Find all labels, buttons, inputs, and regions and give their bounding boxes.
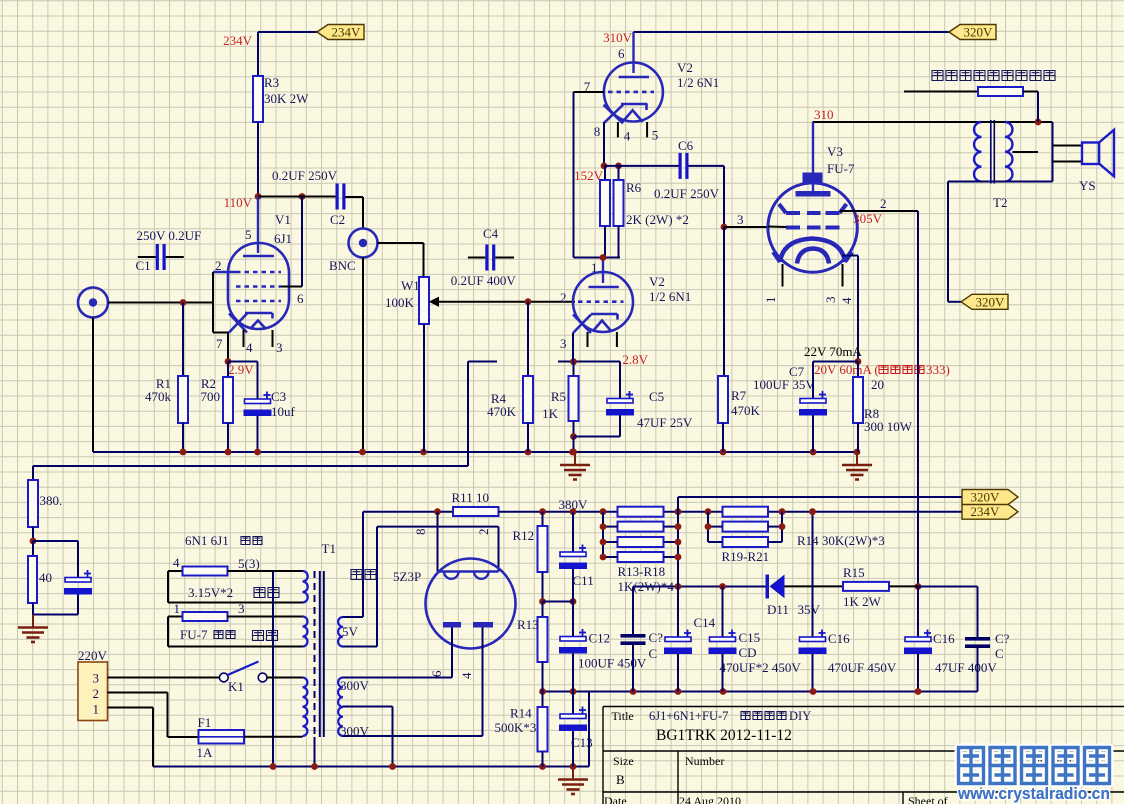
svg-text:1K 2W: 1K 2W bbox=[843, 594, 882, 609]
svg-text:234V: 234V bbox=[223, 33, 253, 48]
svg-text:6J1+6N1+FU-7: 6J1+6N1+FU-7 bbox=[649, 709, 728, 723]
svg-text:2: 2 bbox=[215, 258, 222, 273]
svg-text:6: 6 bbox=[429, 670, 444, 677]
svg-text:380.: 380. bbox=[40, 493, 63, 508]
svg-text:3: 3 bbox=[823, 297, 838, 304]
svg-text:320V: 320V bbox=[976, 294, 1006, 309]
svg-text:300V: 300V bbox=[340, 724, 370, 739]
svg-text:380V: 380V bbox=[559, 497, 589, 512]
svg-text:1K: 1K bbox=[542, 406, 559, 421]
svg-text:V1: V1 bbox=[275, 212, 291, 227]
svg-text:1: 1 bbox=[174, 601, 181, 616]
svg-text:2.8V: 2.8V bbox=[622, 352, 648, 367]
svg-text:22V 70mA: 22V 70mA bbox=[804, 344, 863, 359]
svg-text:47UF 400V: 47UF 400V bbox=[935, 660, 997, 675]
svg-text:R5: R5 bbox=[551, 389, 566, 404]
svg-text:110V: 110V bbox=[224, 195, 253, 210]
svg-text:C2: C2 bbox=[330, 212, 345, 227]
svg-text:C11: C11 bbox=[573, 573, 594, 588]
svg-text:100UF 35V: 100UF 35V bbox=[753, 377, 815, 392]
svg-text:C16: C16 bbox=[933, 631, 955, 646]
svg-text:C: C bbox=[995, 646, 1004, 661]
svg-text:6: 6 bbox=[618, 46, 625, 61]
svg-text:C16: C16 bbox=[828, 631, 850, 646]
svg-text:T2: T2 bbox=[993, 195, 1007, 210]
svg-text:3: 3 bbox=[93, 671, 100, 686]
svg-text:3.15V*2: 3.15V*2 bbox=[188, 585, 233, 600]
svg-text:FU-7: FU-7 bbox=[827, 161, 855, 176]
svg-text:220V: 220V bbox=[78, 648, 108, 663]
svg-text:47UF 25V: 47UF 25V bbox=[637, 415, 693, 430]
svg-text:5: 5 bbox=[245, 227, 252, 242]
svg-text:4: 4 bbox=[459, 672, 474, 679]
svg-text:1A: 1A bbox=[197, 745, 214, 760]
svg-text:DIY: DIY bbox=[789, 709, 811, 723]
svg-text:K1: K1 bbox=[228, 679, 244, 694]
svg-text:C?: C? bbox=[649, 630, 664, 645]
svg-text:30K 2W: 30K 2W bbox=[264, 91, 309, 106]
svg-text:3: 3 bbox=[560, 336, 567, 351]
svg-text:Number: Number bbox=[685, 754, 724, 768]
svg-text:470K: 470K bbox=[731, 403, 761, 418]
svg-text:0.2UF 250V: 0.2UF 250V bbox=[272, 168, 338, 183]
svg-text:2: 2 bbox=[880, 196, 887, 211]
svg-text:320V: 320V bbox=[971, 490, 1001, 505]
svg-text:333): 333) bbox=[926, 362, 950, 377]
svg-text:R19-R21: R19-R21 bbox=[722, 549, 770, 564]
svg-text:305V: 305V bbox=[853, 211, 883, 226]
svg-text:FU-7: FU-7 bbox=[180, 627, 208, 642]
svg-text:Title: Title bbox=[612, 709, 634, 723]
svg-text:310V: 310V bbox=[603, 30, 633, 45]
svg-text:40: 40 bbox=[39, 570, 52, 585]
svg-text:C12: C12 bbox=[589, 631, 611, 646]
svg-text:1: 1 bbox=[93, 702, 100, 717]
svg-text:W1: W1 bbox=[401, 278, 420, 293]
svg-text:R6: R6 bbox=[626, 180, 642, 195]
svg-text:C5: C5 bbox=[649, 389, 664, 404]
svg-text:C4: C4 bbox=[483, 226, 499, 241]
svg-text:4: 4 bbox=[624, 129, 631, 144]
svg-text:R11 10: R11 10 bbox=[452, 490, 489, 505]
svg-text:BG1TRK 2012-11-12: BG1TRK 2012-11-12 bbox=[656, 727, 792, 744]
svg-text:310: 310 bbox=[814, 107, 834, 122]
svg-text:C15: C15 bbox=[739, 630, 761, 645]
svg-text:V2: V2 bbox=[649, 274, 665, 289]
svg-text:1: 1 bbox=[591, 260, 598, 275]
svg-text:6: 6 bbox=[297, 291, 304, 306]
svg-text:20: 20 bbox=[871, 377, 884, 392]
svg-text:5(3): 5(3) bbox=[238, 556, 260, 571]
svg-text:R15: R15 bbox=[843, 565, 865, 580]
svg-text:C3: C3 bbox=[271, 389, 286, 404]
svg-text:R14: R14 bbox=[510, 706, 532, 721]
svg-text:8: 8 bbox=[594, 124, 601, 139]
svg-text:0.2UF 250V: 0.2UF 250V bbox=[654, 186, 720, 201]
svg-text:BNC: BNC bbox=[329, 258, 356, 273]
svg-text:2.9V: 2.9V bbox=[228, 362, 254, 377]
svg-text:2: 2 bbox=[476, 529, 491, 536]
svg-text:D11: D11 bbox=[767, 602, 789, 617]
svg-text:3: 3 bbox=[238, 601, 245, 616]
svg-text:Size: Size bbox=[613, 754, 634, 768]
svg-text:F1: F1 bbox=[198, 715, 212, 730]
svg-text:35V: 35V bbox=[798, 602, 821, 617]
svg-text:320V: 320V bbox=[964, 25, 994, 40]
svg-text:1/2 6N1: 1/2 6N1 bbox=[677, 75, 719, 90]
svg-text:R3: R3 bbox=[264, 75, 279, 90]
svg-text:3: 3 bbox=[276, 340, 283, 355]
svg-text:www.crystalradio.cn: www.crystalradio.cn bbox=[957, 784, 1110, 803]
svg-text:1: 1 bbox=[763, 297, 778, 304]
svg-text:250V 0.2UF: 250V 0.2UF bbox=[137, 228, 202, 243]
svg-text:470K: 470K bbox=[487, 404, 517, 419]
svg-text:V3: V3 bbox=[827, 144, 843, 159]
svg-text:Sheet of: Sheet of bbox=[908, 794, 948, 804]
svg-text:R13: R13 bbox=[517, 617, 539, 632]
svg-text:4: 4 bbox=[839, 297, 854, 304]
svg-text:3: 3 bbox=[737, 212, 744, 227]
svg-text:6N1 6J1: 6N1 6J1 bbox=[185, 533, 229, 548]
svg-text:1K(2W)*4: 1K(2W)*4 bbox=[618, 579, 675, 594]
svg-text:C1: C1 bbox=[136, 258, 151, 273]
svg-text:470k: 470k bbox=[145, 389, 172, 404]
svg-text:24 Aug 2010: 24 Aug 2010 bbox=[679, 794, 741, 804]
svg-text:6J1: 6J1 bbox=[274, 231, 292, 246]
svg-text:470UF 450V: 470UF 450V bbox=[828, 660, 897, 675]
svg-text:100K: 100K bbox=[385, 295, 415, 310]
svg-text:R12: R12 bbox=[513, 528, 535, 543]
svg-text:CD: CD bbox=[739, 645, 757, 660]
svg-text:B: B bbox=[616, 772, 625, 787]
svg-text:700: 700 bbox=[201, 389, 221, 404]
svg-text:2: 2 bbox=[93, 686, 100, 701]
svg-text:5: 5 bbox=[652, 128, 659, 143]
svg-text:R14 30K(2W)*3: R14 30K(2W)*3 bbox=[797, 533, 885, 548]
svg-text:0.2UF 400V: 0.2UF 400V bbox=[451, 273, 517, 288]
svg-text:C: C bbox=[649, 646, 658, 661]
svg-text:T1: T1 bbox=[322, 541, 336, 556]
svg-text:8: 8 bbox=[413, 529, 428, 536]
svg-text:100UF 450V: 100UF 450V bbox=[578, 656, 647, 671]
svg-text:4: 4 bbox=[173, 555, 180, 570]
svg-text:234V: 234V bbox=[332, 25, 362, 40]
svg-text:Date: Date bbox=[604, 794, 627, 804]
svg-text:C6: C6 bbox=[678, 138, 694, 153]
svg-text:10uf: 10uf bbox=[271, 404, 296, 419]
svg-text:300 10W: 300 10W bbox=[864, 419, 913, 434]
svg-text:470UF*2 450V: 470UF*2 450V bbox=[720, 660, 802, 675]
svg-text:1/2 6N1: 1/2 6N1 bbox=[649, 289, 691, 304]
svg-text:7: 7 bbox=[584, 79, 591, 94]
svg-text:YS: YS bbox=[1079, 178, 1096, 193]
svg-text:R7: R7 bbox=[731, 388, 747, 403]
svg-text:5V: 5V bbox=[342, 624, 359, 639]
svg-text:V2: V2 bbox=[677, 60, 693, 75]
svg-text:2K (2W) *2: 2K (2W) *2 bbox=[626, 212, 689, 227]
svg-text:5Z3P: 5Z3P bbox=[393, 569, 421, 584]
svg-text:C?: C? bbox=[995, 631, 1010, 646]
svg-text:R13-R18: R13-R18 bbox=[618, 564, 666, 579]
svg-text:C14: C14 bbox=[694, 615, 716, 630]
svg-text:234V: 234V bbox=[971, 504, 1001, 519]
svg-text:300V: 300V bbox=[340, 678, 370, 693]
svg-text:2: 2 bbox=[560, 290, 567, 305]
svg-text:500K*3: 500K*3 bbox=[495, 720, 537, 735]
svg-text:4: 4 bbox=[246, 340, 253, 355]
svg-text:20V 60mA (: 20V 60mA ( bbox=[814, 362, 879, 377]
svg-text:7: 7 bbox=[216, 336, 223, 351]
